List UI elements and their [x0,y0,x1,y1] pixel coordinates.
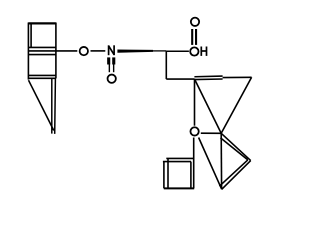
left cage lower vertical b [54,79,57,134]
N=O double bond line 2 upper thick [112,57,115,64]
left cage horizontal y47 [28,46,56,48]
bond A to C4 double: lower line [194,78,222,81]
left cage top edge [28,22,56,24]
bond R to V outer [222,161,251,190]
square front top [163,161,191,163]
N=O double bond line 1 lower thin [108,64,110,73]
square left vertical [163,162,165,189]
wedge bond N to C3 [117,50,153,53]
bond B to T [221,77,251,133]
bond T to R outer [221,133,251,160]
atom O3 (nitroso O) [108,75,116,83]
wedge bond thin tail to C3 [151,50,166,52]
atom O2 ring oxygen [190,127,198,135]
left cage lower vertical a [51,79,53,134]
left cage horizontal y54 [28,54,56,56]
bond R to V inner double line [219,160,247,186]
left cage diagonal [29,80,54,130]
bond C3 to OH [166,50,189,52]
bond C4 to B single [223,76,252,78]
carboxyl C=O line 1 [191,29,193,45]
chain C3 vertical [165,51,167,79]
square inner vertical [167,159,169,189]
left cage horizontal y75 [28,74,56,76]
left cage inner vertical [30,23,32,47]
atom O top of carboxyl [191,18,199,26]
left cage horizontal y78 [28,77,56,79]
chain horizontal to A [166,78,194,80]
atom O1 (O-N linker) [80,47,88,55]
bond T to R inner double line [220,138,247,160]
bond row cage to O [28,50,77,52]
bond A to C4 double: upper line [194,75,222,78]
hydroxyl O of OH [190,47,198,55]
left cage right vertical [55,23,57,79]
hydroxyl H of OH [201,47,206,56]
left cage left vertical [27,23,29,80]
square back top [166,157,194,159]
bond A down to ring O [194,79,196,126]
bond O to N [91,50,106,52]
bond ring O to V [199,138,222,189]
bond T to V [220,133,222,189]
N=O double bond line 1 upper thick [107,57,110,64]
square bottom edge [164,187,194,189]
atom N [109,45,115,55]
carboxyl C=O line 2 [195,29,197,45]
N=O double bond line 2 lower thin [113,64,115,73]
bond A to T [195,79,222,133]
ring O drop line [193,138,195,189]
bond ring O to T [201,132,221,134]
square right vertical [190,162,192,189]
